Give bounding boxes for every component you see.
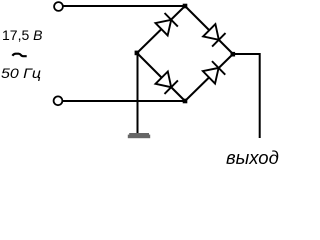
wire ground vertical from node L <box>137 53 139 133</box>
label output vyhod <box>226 147 279 169</box>
diode D3 bottom-left arm <box>155 71 178 94</box>
label 17,5 V <box>2 27 42 43</box>
wire bottom horizontal from input terminal to node bottom <box>63 100 185 102</box>
diode D4 bottom-right arm <box>202 61 225 84</box>
ground symbol <box>128 133 150 138</box>
diode D2 top-right arm <box>203 24 226 47</box>
diode D1 top-left arm <box>155 13 178 36</box>
node T junction dot <box>183 4 188 9</box>
AC symbol tilde <box>12 54 26 57</box>
wire output vertical drop <box>259 53 261 138</box>
wire bridge arm bottom-right (node B to node R) <box>185 54 233 101</box>
wire bridge arm top-right (node T to node R) <box>185 6 233 54</box>
wire output horizontal from node R <box>233 53 260 55</box>
wire bridge arm bottom-left (node L to node B) <box>137 53 185 101</box>
node B junction dot <box>183 99 188 104</box>
terminal circle top-left input <box>54 2 63 11</box>
node L junction dot <box>135 51 140 56</box>
node R junction dot <box>231 52 236 57</box>
terminal circle bottom-left input <box>54 96 63 105</box>
wire bridge arm top-left (node L to node T) <box>137 6 185 53</box>
label 50 Hz <box>1 65 41 81</box>
wire top horizontal from input terminal to node top <box>64 5 186 7</box>
